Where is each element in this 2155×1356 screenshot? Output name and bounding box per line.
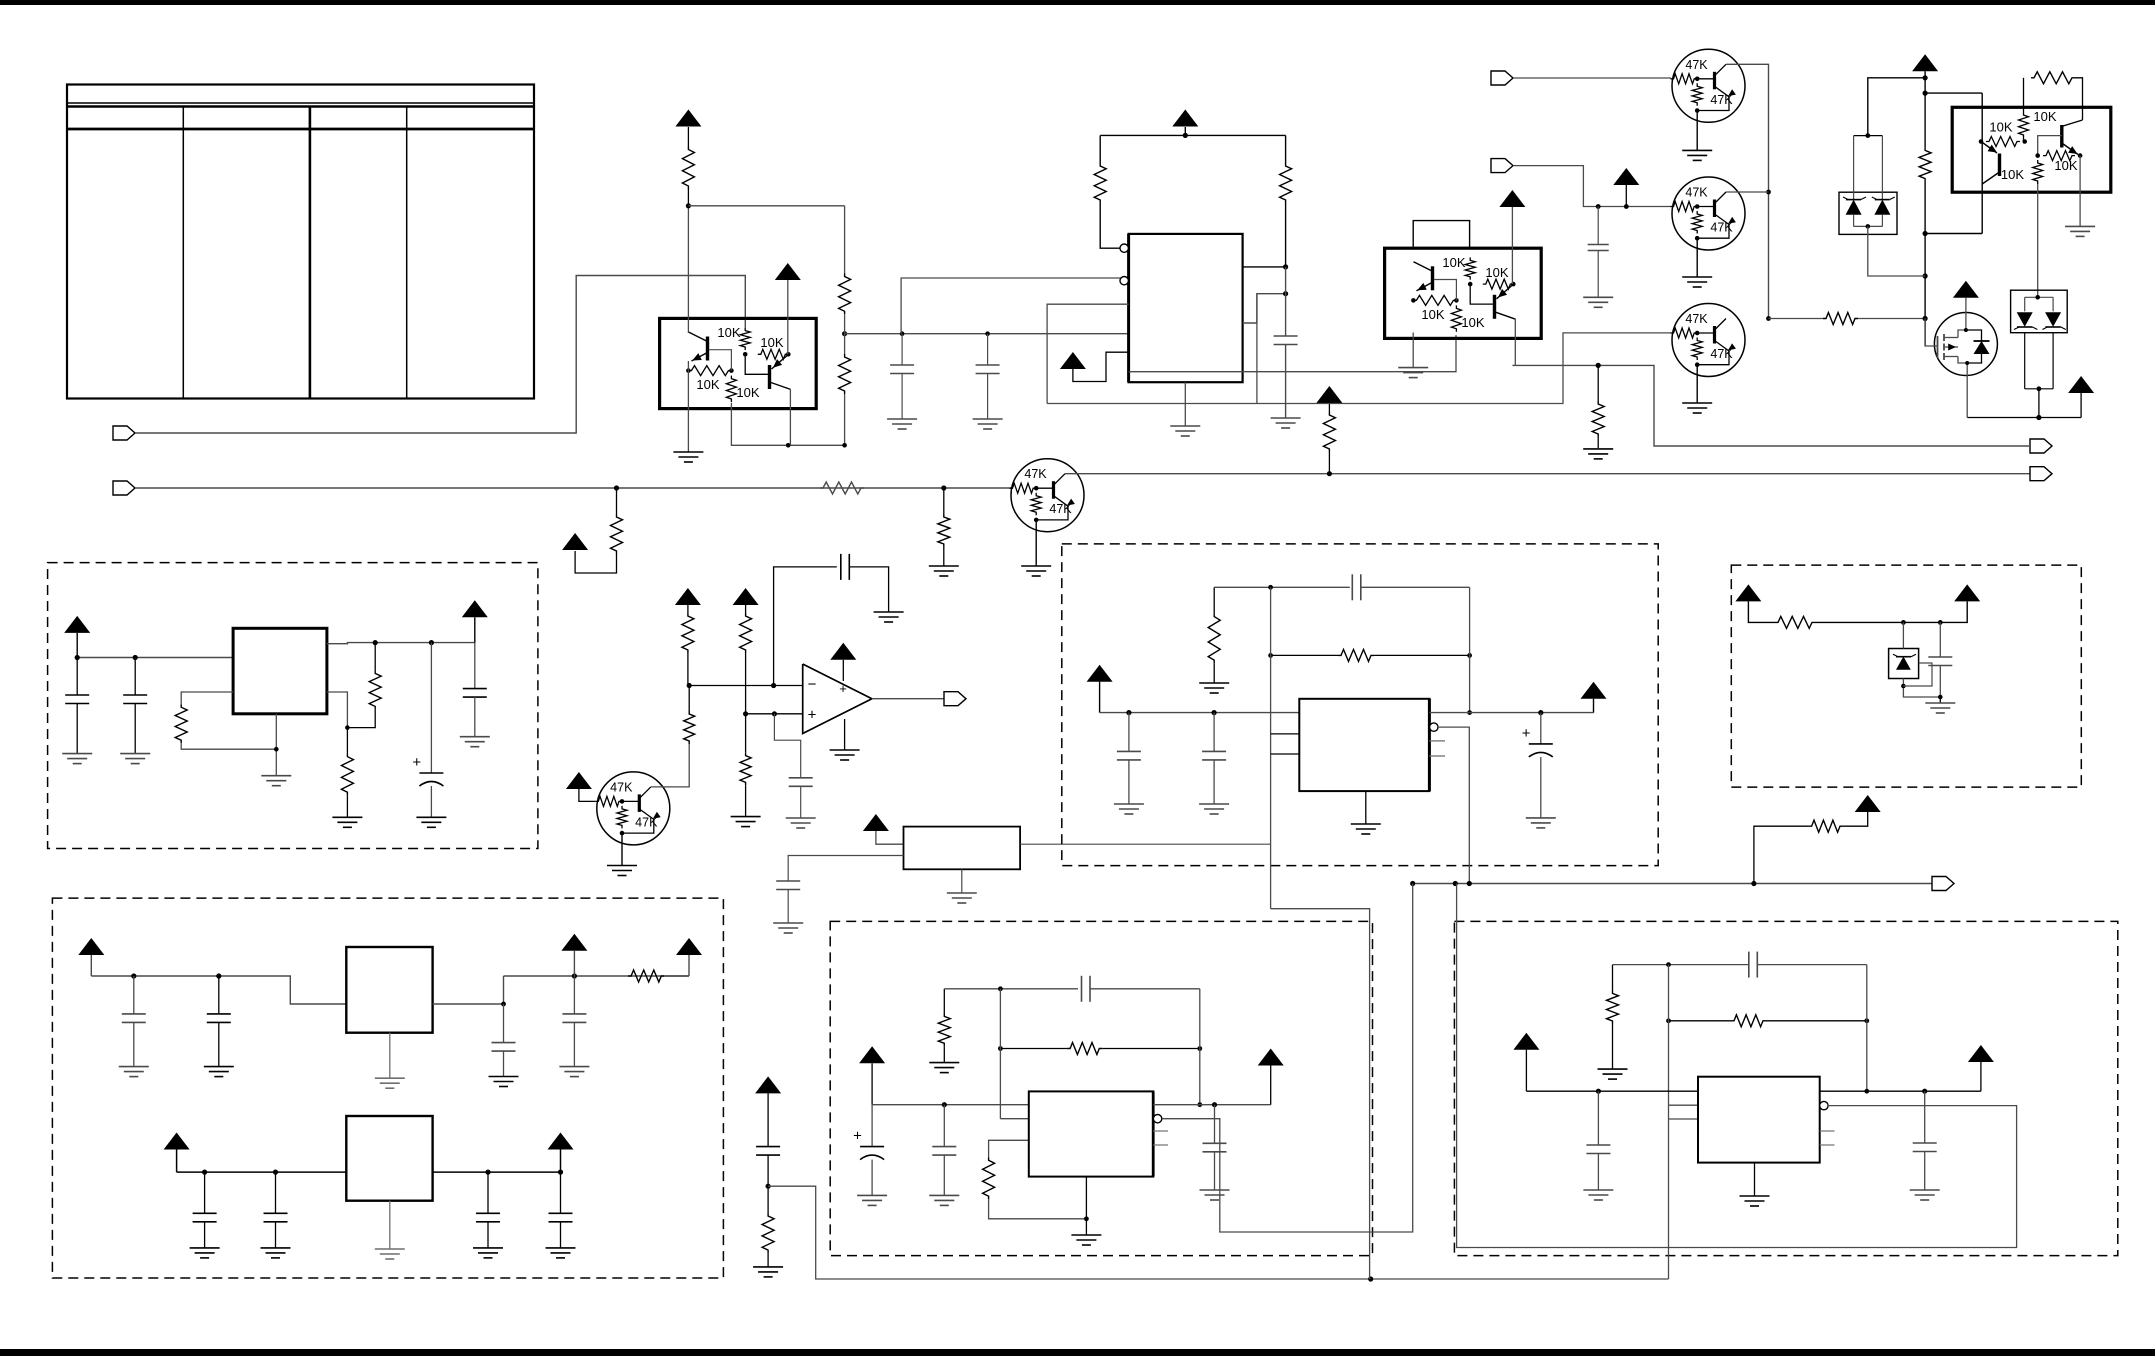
ground fb leg [1199, 682, 1229, 684]
Q4 gate wire [1925, 319, 1937, 347]
MOSFET source rail [1967, 417, 2081, 419]
LDO1 out rail [504, 975, 690, 977]
ground U4 [1351, 823, 1381, 825]
power arrow LDO1 out [561, 934, 587, 951]
U5 resistor 10K A [1979, 139, 1984, 144]
svg-text:10K: 10K [717, 325, 740, 340]
ground (plus node resistor) [731, 816, 761, 818]
U1 right pin B wire [1243, 294, 1286, 323]
dashed enclosure: linear regulator section [48, 563, 538, 849]
dcdc2 output rail [1153, 1104, 1271, 1106]
resistor bias right upper [740, 613, 752, 653]
LDO1 ground stem [389, 1033, 391, 1079]
junction input2 mid [941, 485, 946, 490]
dashed enclosure: DC-DC converter 1 [1062, 544, 1658, 866]
output connector OUT3 [2030, 439, 2052, 453]
shunt reference D (boxed zener) [1889, 649, 1919, 679]
wire Q10 collector to OUT4 [1065, 473, 2030, 475]
cap LDO2-in 2 [275, 1172, 277, 1213]
bottom border bar [0, 1349, 2155, 1356]
dashed enclosure: dual LDO section [52, 898, 723, 1278]
power arrow reg-out [462, 600, 488, 617]
zener D1a (up) [1846, 200, 1862, 215]
VR1 output wire upper [327, 643, 475, 644]
dual-transistor module U3 (bold box) [1385, 248, 1542, 338]
power arrow (OUT4 pull-up) [1316, 386, 1342, 403]
dcdc2 fb left leg [943, 989, 945, 1014]
zener D2b (down) [2045, 312, 2061, 326]
junction Q2 collector on bus [1766, 190, 1771, 195]
dcdc1 fb riser [1469, 587, 1471, 712]
svg-text:47K: 47K [1710, 347, 1733, 361]
ground under Q10 [1035, 520, 1037, 566]
power arrow mosfet source [2068, 376, 2094, 393]
right bus vertical [1924, 71, 1926, 147]
svg-text:+: + [853, 1128, 862, 1145]
output connector OUT5 [944, 692, 966, 706]
output connector OUT6 [1932, 877, 1954, 891]
svg-text:47K: 47K [1024, 467, 1047, 481]
cap LDO1-out 1 [503, 1004, 505, 1043]
op-amp A1 [803, 664, 872, 734]
wire input1 to transistor module [135, 276, 745, 434]
U3 resistor 10K cross B [1483, 279, 1514, 289]
ground [546, 1247, 576, 1249]
U3 resistor 10K base A [1411, 298, 1416, 303]
LDO2 ground stem [389, 1201, 391, 1249]
power arrow reg-in [64, 616, 90, 633]
U7 EN bubble [1820, 1101, 1828, 1109]
ground cap reg-out 2 [460, 736, 490, 738]
svg-text:47K: 47K [635, 815, 658, 829]
ground (input2 divider) [929, 565, 959, 567]
cap reg-in 2 [134, 658, 136, 696]
feedback cap from minus node [774, 567, 837, 686]
power arrow LDO2 in [164, 1133, 190, 1150]
dashed enclosure: DC-DC converter 3 [1454, 921, 2117, 1255]
IC U1 (main controller) [1129, 234, 1243, 382]
ground cap reg-in 1 [62, 753, 92, 755]
U1 pinB chain riser [1256, 294, 1258, 404]
wire bus to TVS top [1868, 78, 1925, 136]
power arrow after resistor [676, 938, 702, 955]
svg-text:10K: 10K [1442, 255, 1465, 270]
U3 resistor 10K emitter A [1451, 305, 1461, 331]
ground cap1 [887, 418, 917, 420]
MOSFET Q4 (circled, with body diode) [1934, 313, 1997, 376]
wire input2 horizontal rail [135, 487, 1012, 489]
svg-text:10K: 10K [1461, 315, 1484, 330]
svg-text:10K: 10K [1421, 307, 1444, 322]
resistor fb lower [341, 754, 353, 796]
resistor mid divider [767, 1186, 769, 1213]
U2 resistor 10K base A [686, 368, 691, 373]
loop wire to module U5 [1925, 92, 1982, 94]
svg-text:47K: 47K [1685, 186, 1708, 200]
ground U5 [2065, 225, 2095, 227]
wire loop above U3 [1413, 221, 1469, 249]
series resistor LDO1 out [628, 970, 664, 982]
power arrow LDO1 in [78, 938, 104, 955]
U4 EN wire to rail6 [1438, 727, 1469, 883]
ground cap reg-in 2 [120, 753, 150, 755]
ground (X1 cap) [773, 922, 803, 924]
ground [261, 1247, 291, 1249]
junction cap2 [985, 331, 990, 336]
ground [559, 1066, 589, 1068]
svg-text:47K: 47K [1049, 502, 1072, 516]
ground [119, 1066, 149, 1068]
resistor ref series [1775, 616, 1815, 628]
U4 ground stem [1365, 791, 1367, 824]
ground Q3 [1696, 365, 1698, 403]
dashed enclosure: voltage reference [1731, 565, 2081, 787]
wire to Q1 [1513, 77, 1671, 79]
op-amp output wire [872, 698, 944, 700]
resistor to ground (OUT3 net) [1597, 365, 1599, 401]
U5 Q-A transistor [1998, 154, 2001, 177]
svg-text:10K: 10K [2054, 158, 2077, 173]
VR1 sense wire [327, 692, 348, 728]
ground electrolytic dcdc2 [857, 1194, 887, 1196]
U1 pin6 wire to module 2 [1129, 335, 1456, 372]
dcdc3 V2 vertical [1668, 965, 1670, 1106]
dcdc2 fb top row + cap [944, 988, 1078, 990]
wire Q11 collector to resistor [651, 744, 689, 787]
ground electrolytic dcdc1 [1526, 817, 1556, 819]
resistor OUT6 pull-up [1809, 820, 1843, 832]
zener D2a (down) [2017, 312, 2033, 326]
wire U2 collector A up / ground chain [687, 206, 689, 333]
VCC rail above U1 [1100, 134, 1285, 136]
cap LDO1-in 1 [133, 976, 135, 1014]
resistor R pull (input2 left) [616, 488, 618, 514]
U6 ground stem [1085, 1177, 1087, 1235]
dcdc2 soft-start resistor [989, 1140, 1029, 1157]
ref ground [1939, 697, 1941, 703]
svg-text:47K: 47K [1685, 312, 1708, 326]
ground [1200, 1189, 1230, 1191]
U6 right stubs [1153, 1130, 1168, 1132]
LDO1 output wire [433, 976, 504, 1004]
dcdc3 fb resistor row [1666, 1018, 1671, 1023]
VR1 ground stem [275, 714, 277, 776]
svg-text:10K: 10K [696, 377, 719, 392]
ground [473, 1247, 503, 1249]
transistor Q10 (digital NPN with built-in 47K resistors, circled) [1010, 459, 1085, 532]
power arrow LDO2 out [548, 1133, 574, 1150]
power arrow dcdc1 in [1087, 665, 1113, 682]
junction cap IN-B [1596, 204, 1601, 209]
power arrow above U2 [675, 110, 701, 127]
power arrow OUT6 pull-up [1855, 795, 1881, 812]
U3 Q-B collector wire down [1514, 319, 1516, 365]
series resistor input2 [820, 482, 864, 494]
U2 wire base B [745, 354, 769, 374]
junction OUT3/resistor [1596, 363, 1601, 368]
power arrow dcdc1 out [1581, 682, 1607, 699]
wire OUT3 net [1512, 365, 2030, 446]
resistor pull-up on OUT4 line [1328, 452, 1330, 474]
wire U2 R-b bottom to node [731, 403, 844, 446]
svg-text:−: − [808, 676, 817, 693]
electrolytic dcdc2 in [871, 1105, 873, 1147]
svg-text:+: + [808, 707, 817, 724]
wire U1 pin1 to pull-up [1100, 203, 1120, 248]
power arrow above U1 [1172, 110, 1198, 127]
ground U7 [1740, 1195, 1770, 1197]
junction VCC rail [1183, 133, 1188, 138]
electrolytic dcdc1 out [1540, 713, 1542, 744]
resistor bus lower [839, 354, 851, 394]
dcdc3 fb riser [1866, 965, 1868, 1092]
dcdc3 input rail [1526, 1090, 1698, 1092]
cap dcdc1-in 1 [1128, 713, 1130, 752]
ground cap2 [973, 418, 1003, 420]
U5 resistor 10K top [2023, 138, 2025, 142]
series resistor Q3 to gate bus [1769, 318, 1824, 320]
svg-text:10K: 10K [1485, 265, 1508, 280]
U7 right stubs [1820, 1130, 1835, 1132]
U2 feedback wire A [709, 350, 731, 371]
zener D1b (up) [1874, 200, 1890, 215]
cap C (U1 left) 2 [987, 334, 989, 365]
U5 resistor 10K down [2033, 160, 2043, 184]
ground [204, 1066, 234, 1068]
ground [1910, 1189, 1940, 1191]
transistor Q1 (digital NPN with built-in 47K resistors, circled) [1671, 49, 1746, 122]
IC U6 (buck converter 2) [1029, 1091, 1153, 1176]
power arrow (op-amp V+) [830, 643, 856, 660]
cap dcdc1-in 2 [1213, 713, 1215, 752]
RC from plus node [774, 714, 800, 778]
power arrow IN-B [1613, 168, 1639, 185]
cap LDO2-out 2 [560, 1172, 562, 1213]
Q1 collector bus [1726, 64, 1769, 318]
TVS bottom bar [1853, 215, 1855, 227]
LDO1 IC [346, 947, 432, 1033]
reg input rail [77, 657, 233, 659]
input connector J2 (left, line 2) [113, 481, 135, 495]
svg-text:10K: 10K [736, 385, 759, 400]
riser to pull resistor OUT6 [1754, 826, 1809, 883]
resistor right of U1 (pull-up) [1285, 135, 1287, 163]
ground LDO2 [375, 1248, 405, 1250]
electrolytic cap reg-out [430, 643, 432, 773]
U6 EN wire loop to rail6 [1162, 884, 1413, 1233]
U2 resistor 10K emitter A [726, 376, 736, 402]
wire to Q2 [1513, 166, 1671, 207]
dcdc1 fb resistor row [1268, 653, 1273, 658]
resistor right bus [1919, 147, 1931, 181]
cap dcdc2 out [1214, 1105, 1216, 1144]
IC U7 (buck converter 3) [1698, 1077, 1820, 1163]
power arrow dcdc3 in [1513, 1033, 1539, 1050]
cap on U1 right chain [1274, 335, 1298, 337]
U5 resistor 10K B cross [2035, 153, 2040, 158]
TVS diode pack D1 (dual zener up) [1839, 192, 1897, 234]
U3 feedback wire A [1434, 280, 1456, 301]
junction bottom rail [1368, 1276, 1373, 1281]
dcdc3 fb top row + cap [1613, 964, 1749, 966]
VR1 adj resistor [181, 692, 233, 704]
resistor to ground (input2) [943, 488, 945, 514]
dashed enclosure: DC-DC converter 2 [830, 921, 1372, 1255]
dcdc2 V2 vertical [999, 989, 1001, 1119]
power arrow (op-amp bias left) [675, 588, 701, 605]
power arrow for U2 Q-B emitter [775, 263, 801, 280]
junction bus mid [842, 331, 847, 336]
U1 pin3 wire [1047, 304, 1129, 403]
ground mid divider [753, 1266, 783, 1268]
input connector IN-A (right bank) [1491, 71, 1513, 85]
resonator/filter block X1 [904, 827, 1021, 870]
ground fb [332, 816, 362, 818]
ground [1199, 803, 1229, 805]
cap LDO2-out 1 [487, 1172, 489, 1213]
U1 pin1 bubble [1120, 244, 1128, 252]
svg-text:10K: 10K [2001, 167, 2024, 182]
svg-text:10K: 10K [1989, 120, 2012, 135]
dcdc2 fb riser [1199, 989, 1201, 1105]
ground U6 [1071, 1234, 1101, 1236]
ground (plus node cap) [786, 817, 816, 819]
horizontal wire U2 top to bus [688, 205, 844, 207]
ref adjust wire [1903, 663, 1932, 686]
cap dcdc3 out [1924, 1091, 1926, 1143]
U3 resistor 10K base B [1465, 257, 1475, 279]
power arrow dcdc2 out [1258, 1049, 1284, 1066]
ground LDO1 [375, 1077, 405, 1079]
dcdc1 input rail [1100, 712, 1300, 714]
wire mid divider to bottom rail [768, 1186, 1668, 1279]
resistor (pull-up of U2 input chain) [687, 189, 689, 206]
LDO2 IC [346, 1116, 432, 1201]
U4 pin2 path down [1271, 909, 1370, 1279]
U2 resistor 10K cross B [758, 349, 789, 359]
junction top of U2 chain [686, 203, 691, 208]
transistor Q2 (digital NPN with built-in 47K resistors, circled) [1671, 177, 1746, 250]
U1 pin2 bubble [1120, 277, 1128, 285]
svg-text:47K: 47K [1710, 221, 1733, 235]
net wire y334 (caps to U1 pin4) [845, 333, 1129, 335]
resistor bus upper (R divider) [844, 206, 846, 274]
ground under Q11 [621, 833, 623, 865]
wire op-amp minus node [688, 685, 803, 687]
resistor minus-node to Q11 collector [684, 711, 695, 744]
input connector IN-B (right bank) [1491, 159, 1513, 173]
power arrow Q11 input [566, 772, 592, 789]
dcdc1 fb top row + cap [1214, 586, 1350, 588]
dcdc3 output rail [1820, 1090, 1981, 1092]
dual-transistor module U2 (bold box) [660, 318, 817, 408]
power arrow (op-amp bias right) [733, 588, 759, 605]
junction mid divider [766, 1184, 771, 1189]
U1 ground stem [1184, 382, 1186, 426]
ground fb leg 2 [929, 1062, 959, 1064]
Q4 internals [1937, 336, 1939, 358]
junction arrow IN-B [1624, 204, 1629, 209]
power arrow above U3 [1499, 190, 1525, 207]
ground U1 [1170, 425, 1200, 427]
U3 wire base B [1470, 284, 1494, 304]
ground fb leg 3 [1598, 1068, 1628, 1070]
ground VR1 [261, 775, 291, 777]
U4 EN bubble [1430, 723, 1438, 731]
X1 output wire [1020, 843, 1270, 845]
ground [489, 1076, 519, 1078]
ground under U2 [673, 451, 703, 453]
ground [929, 1194, 959, 1196]
ground Q1 [1696, 111, 1698, 151]
ground [1114, 803, 1144, 805]
resistor bias left upper [682, 613, 694, 653]
top border bar [0, 0, 2155, 5]
dcdc1 V2 vertical [1270, 587, 1272, 908]
U5 base B stub [2038, 136, 2062, 156]
title block table (empty revision table) [67, 85, 534, 399]
resistor above U5 [2031, 72, 2075, 84]
cap dcdc2 in [943, 1105, 945, 1147]
ground (OUT3 net) [1583, 448, 1613, 450]
IC U4 (buck converter) [1299, 699, 1429, 791]
svg-text:47K: 47K [610, 780, 633, 794]
cap LDO1-in 2 [218, 976, 220, 1014]
ground Q2 [1696, 238, 1698, 277]
U6 EN bubble [1153, 1115, 1161, 1123]
U1 right pin A wire [1243, 266, 1286, 268]
X1 lower-left pin to cap [788, 856, 903, 882]
X1 ground stem [961, 869, 963, 893]
U2 Q-A PNP transistor [706, 337, 709, 361]
svg-text:+: + [412, 754, 421, 771]
ground (feedback cap) [874, 611, 904, 613]
U3 Q-A PNP transistor [1431, 266, 1434, 290]
resistor pull-up U1 pin1 [1094, 163, 1106, 203]
TVS to bus wire [1868, 226, 1925, 276]
LDO2 out rail [433, 1171, 561, 1173]
cap IN-B [1597, 207, 1599, 245]
cap dcdc3 in [1597, 1091, 1599, 1145]
svg-text:10K: 10K [2033, 109, 2056, 124]
cap LDO2-in 1 [204, 1172, 206, 1213]
dual-transistor module U5 (bold box) [1952, 107, 2111, 192]
regulator IC VR1 [233, 628, 327, 714]
TVS diode pack D2 (dual zener down) [2011, 290, 2068, 333]
cap ref [1939, 622, 1941, 657]
U7 EN loop to rail6 [1457, 884, 2017, 1248]
ground U1 right chain [1271, 417, 1301, 419]
cap mid divider [756, 1146, 780, 1148]
power arrow VCC (input2 pull) [562, 533, 588, 550]
junction out rail [373, 640, 378, 645]
U5 Q-B transistor [2060, 125, 2063, 148]
power arrow mid divider [755, 1076, 781, 1093]
cap reg-in 1 [76, 658, 78, 696]
dcdc1 output rail [1429, 712, 1593, 714]
dcdc1 fb top leg resistor [1213, 587, 1215, 613]
U2 resistor 10K base B [740, 328, 750, 350]
power arrow ref left [1735, 584, 1761, 601]
dcdc2 input rail [872, 1104, 1029, 1106]
svg-text:10K: 10K [760, 335, 783, 350]
cap reg-out 2 [474, 643, 476, 689]
junction Q3 collector on bus [1766, 316, 1771, 321]
cap LDO1-out 2 [573, 976, 575, 1014]
power arrow dcdc2 in [859, 1046, 885, 1063]
junction on input2 [614, 485, 619, 490]
cap C (U1 left) 1 [901, 334, 903, 365]
